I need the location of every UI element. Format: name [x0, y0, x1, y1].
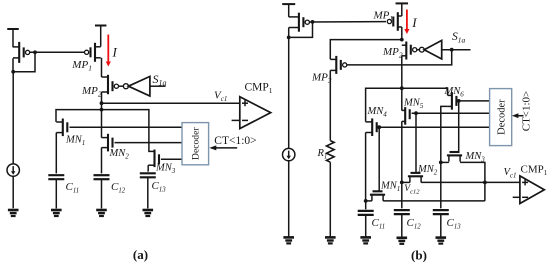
- wire MP2 drain to bus (b): [401, 56, 403, 111]
- transistor MN3 (a): [148, 150, 159, 168]
- label S1a: [153, 72, 167, 88]
- wire current source to ground (b): [288, 161, 290, 238]
- transistor MN3 (b): [447, 152, 462, 162]
- wire MN4 gate to decoder (b): [379, 126, 490, 128]
- wire MP2 drain to node (a): [101, 92, 103, 138]
- wire R1 to ground (b): [329, 162, 331, 237]
- node S1a junction (b): [450, 48, 454, 52]
- transistor MN2 (b): [408, 173, 423, 183]
- wire MP2 gate to inverter (b): [417, 49, 419, 51]
- wire MN3 gate to decoder (a): [161, 158, 182, 160]
- power VDD bar (a) left: [7, 28, 19, 30]
- capacitor C12: [94, 175, 110, 208]
- wire C13 node down (b): [440, 162, 442, 208]
- wire current source to ground (a): [12, 176, 14, 208]
- svg-text:CMP1: CMP1: [245, 82, 273, 96]
- label CT<1:0> (b): [521, 91, 533, 132]
- svg-text:CT<1:0>: CT<1:0>: [521, 91, 533, 132]
- transistor MP2 (b): [402, 42, 417, 60]
- wire MN2 source to C12 (a): [101, 148, 103, 174]
- label MN1 (b): [380, 181, 400, 194]
- wire MN4 source down (b): [365, 133, 367, 201]
- wire MN6 source down (b): [441, 106, 448, 162]
- node gate-drain junction (b): [311, 20, 315, 24]
- label MN5 (b): [403, 98, 424, 111]
- label Vc1 (a): [214, 90, 227, 104]
- transistor MP1 (b): [387, 12, 402, 31]
- transistor MP1 (a): [85, 43, 101, 62]
- node Vc12 junction (b): [400, 181, 404, 185]
- label MP3 (b): [311, 72, 332, 86]
- ground (b) C12: [397, 238, 408, 244]
- transistor P0a (diode-connected PMOS): [13, 29, 30, 72]
- capacitor C13: [140, 173, 156, 208]
- transistor MN5 (b): [402, 107, 410, 125]
- current arrow I (a): [106, 35, 111, 67]
- ground (b) C11: [360, 237, 371, 243]
- node drain junction (b): [287, 36, 291, 40]
- node MN5 gate junction (b): [414, 111, 418, 115]
- label MN4 (b): [367, 106, 388, 119]
- label C12 (b): [407, 217, 422, 231]
- decoder block (a): [182, 123, 209, 165]
- label MN1 (a): [65, 135, 85, 148]
- transistor MP2 (a): [102, 75, 119, 94]
- wire MN3 source to C13 (a): [147, 165, 150, 171]
- wire MN1 source to C11 (a): [55, 133, 57, 174]
- transistor MN6 (b): [448, 92, 457, 110]
- ground (a) current source: [8, 210, 19, 216]
- node MP1 drain junction (b): [400, 38, 404, 42]
- wire MN5 source down (b): [401, 121, 403, 182]
- ground (b) R1: [325, 237, 336, 243]
- svg-text:I: I: [112, 45, 118, 60]
- capacitor C13 (b): [433, 210, 449, 238]
- node gate-drain junction (a): [33, 50, 37, 54]
- label S1a (b): [452, 31, 466, 45]
- ground (a) C11: [51, 210, 62, 216]
- label MN6 (b): [444, 86, 465, 99]
- label MP2 (b): [382, 46, 403, 60]
- svg-text:CT<1:0>: CT<1:0>: [214, 135, 256, 147]
- svg-text:I: I: [411, 15, 417, 30]
- label MN3 (b): [465, 151, 486, 164]
- current source I1a: [7, 164, 19, 176]
- node Vc1 junction (b): [483, 181, 487, 185]
- power VDD bar (a) MP1: [95, 26, 107, 47]
- label MN2 (a): [109, 148, 130, 161]
- wire MN2 left lead (b): [402, 181, 410, 183]
- label C11 (b): [372, 217, 386, 231]
- wire CMP1 minus stub (a): [232, 119, 240, 121]
- ground (a) C12: [96, 210, 107, 216]
- label C11: [66, 181, 80, 195]
- label C13: [152, 180, 167, 194]
- ground (a) C13: [143, 210, 154, 216]
- label MN2 (b): [417, 164, 438, 177]
- label C12: [111, 181, 126, 195]
- label CMP1 (b): [521, 164, 548, 178]
- wire MN2 gate to decoder (a): [115, 142, 183, 144]
- label I (b): [411, 15, 417, 30]
- power VDD bar (b) left: [282, 3, 295, 5]
- caption (a): [133, 247, 148, 262]
- wire MN1 right rail Vc1 (b): [383, 200, 485, 202]
- ground (b) current source: [283, 237, 294, 243]
- label MP1 (b): [373, 10, 394, 24]
- label Vc1 (b): [504, 167, 517, 180]
- comparator CMP1 (b): [520, 176, 544, 204]
- wire node to MP3 source (b): [330, 40, 402, 60]
- label MP1 (a): [71, 59, 92, 73]
- inverter U1a: [123, 76, 149, 96]
- wire MN5 gate to decoder (b): [412, 112, 490, 114]
- comparator CMP1 (a): [240, 97, 271, 129]
- label MN3 (a): [155, 163, 176, 176]
- wire S1a to MP3 gate (b): [347, 50, 452, 65]
- wire CMP1 minus stub (b): [513, 196, 520, 198]
- wire MN6 gate to MN3 gate (b): [458, 101, 460, 152]
- wire MN4 gate to MN1 gate (b): [378, 127, 380, 191]
- wire MP3 drain to R1 (b): [329, 70, 331, 140]
- decoder block (b): [490, 89, 512, 146]
- svg-text:Decoder: Decoder: [191, 127, 202, 160]
- wire drain bus (a): [56, 110, 149, 152]
- label MP2 (a): [81, 85, 102, 99]
- node drain junction (a): [11, 70, 15, 74]
- transistor P0b (diode-connected PMOS): [289, 4, 310, 37]
- wire MN5 gate to MN2 gate (b): [415, 113, 417, 173]
- svg-text:(b): (b): [411, 248, 427, 263]
- node A junction C11 (b): [364, 199, 368, 203]
- wire gate bus (b): [309, 21, 386, 23]
- label C13 (b): [447, 217, 462, 231]
- capacitor C12 (b): [394, 210, 410, 238]
- svg-text:Decoder: Decoder: [496, 99, 507, 135]
- wire MN3 left lead (b): [441, 161, 449, 163]
- wire MN6 gate to decoder (b): [459, 100, 490, 102]
- wire node A to C11 (b): [365, 201, 367, 209]
- node MN4 gate junction (b): [377, 125, 381, 129]
- label R1: [317, 148, 328, 161]
- wire MP1 drain to node (b): [401, 27, 403, 40]
- caption (b): [411, 248, 427, 263]
- wire CT arrow (a): [209, 145, 237, 150]
- wire top bus (b): [366, 88, 448, 122]
- svg-text:(a): (a): [133, 247, 148, 262]
- wire MN3 right lead (b): [460, 162, 485, 201]
- resistor R1: [327, 141, 335, 163]
- node Vc1 junction (a): [100, 101, 104, 105]
- label CMP1 (a): [245, 82, 273, 96]
- current arrow I (b): [404, 10, 409, 35]
- wire diode connection (b): [289, 22, 313, 38]
- transistor MN1 (a): [56, 119, 67, 137]
- wire MP1 drain to MP2 (a): [101, 58, 103, 77]
- node MN6 gate junction (b): [457, 99, 461, 103]
- wire drain to current source (b): [288, 37, 290, 148]
- ground (b) C13: [436, 238, 447, 244]
- wire diode connection (a): [13, 52, 35, 72]
- node bus junction (b): [400, 86, 404, 90]
- capacitor C11: [48, 175, 64, 208]
- wire gate bus (a): [30, 51, 85, 53]
- power VDD bar (b) MP1: [396, 3, 409, 16]
- wire inverter input S1a (b): [442, 49, 471, 51]
- wire inverter input S1a (a): [150, 85, 166, 87]
- current source I1b: [283, 148, 295, 160]
- wire MN1 left lead (b): [366, 200, 372, 202]
- node bus junction (a): [100, 108, 104, 112]
- wire MN1 gate to decoder (a): [70, 126, 183, 128]
- svg-text:CMP1: CMP1: [521, 164, 548, 178]
- label CT<1:0> (a): [214, 135, 256, 147]
- transistor MN2 (a): [102, 134, 113, 152]
- transistor MP3 (b): [330, 56, 347, 74]
- transistor MN1 (b): [370, 191, 385, 201]
- wire MP2 gate to inverter (a): [119, 85, 124, 87]
- wire drain to current source (a): [12, 72, 14, 164]
- wire Vc1 to comparator (a): [102, 102, 240, 104]
- capacitor C11 (b): [358, 211, 374, 238]
- transistor MN4 (b): [366, 118, 377, 136]
- wire Vc12 to C12 (b): [401, 182, 403, 208]
- wire Vc1 rail (b): [421, 181, 520, 183]
- inverter U1b: [419, 40, 441, 59]
- wire CT arrow (b): [512, 113, 524, 118]
- label I (a): [112, 45, 118, 60]
- node C13 junction (b): [439, 161, 443, 165]
- label Vc12 (b): [404, 184, 420, 196]
